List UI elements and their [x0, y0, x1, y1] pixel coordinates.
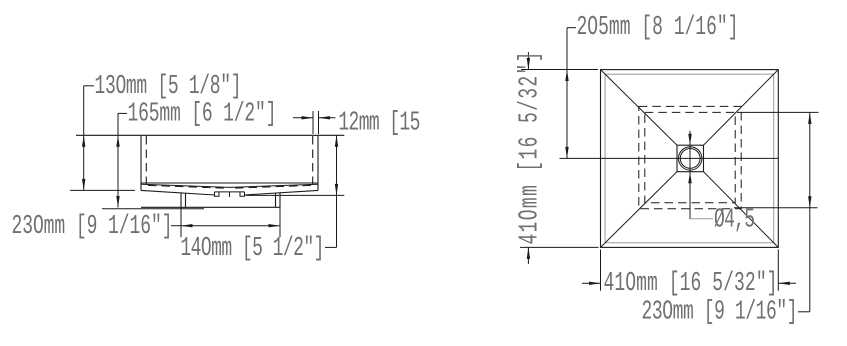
dim 130mm leader tick — [84, 85, 94, 87]
svg-text:14Omm [5 1/2″]: 14Omm [5 1/2″] — [180, 233, 324, 264]
dim 410mm left top arrowhead — [527, 58, 530, 70]
diagonal top-right — [704, 70, 779, 145]
dim 205mm arrow down — [565, 147, 568, 159]
dim 410mm bottom left arrowhead — [589, 282, 601, 285]
dim 410mm left bottom arrowhead — [527, 247, 530, 259]
dim 230mm right arrow up — [808, 112, 811, 124]
dim 205mm arrow up — [565, 70, 568, 82]
dim 165mm arrow up — [116, 135, 119, 147]
dim 230mm right arrow down — [808, 196, 811, 208]
hidden bottom slope left (dashed) — [148, 185, 226, 188]
extension line bottom of wall (130mm dim) — [70, 189, 135, 191]
svg-text:23Omm [9 1/16″]: 23Omm [9 1/16″] — [12, 210, 173, 241]
svg-text:165mm [6 1/2″]: 165mm [6 1/2″] — [128, 98, 277, 129]
dim 410mm bottom: left arrow segment — [582, 282, 601, 284]
dim 230mm right leader tick — [798, 311, 810, 313]
tray top rim line — [76, 134, 344, 136]
drain square — [677, 145, 704, 172]
horizontal centerline — [560, 157, 779, 159]
diameter leader horizontal (gray) — [690, 218, 713, 220]
dim 230mm arrow right — [269, 224, 281, 227]
outer hidden flange square (dashed) — [639, 106, 741, 208]
drain fitting left tab — [215, 192, 220, 196]
drain fitting right tab — [240, 192, 245, 196]
svg-text:23Omm [9 1/16″]: 23Omm [9 1/16″] — [642, 296, 798, 327]
dim 165mm line — [117, 113, 119, 207]
dim 130mm arrow up — [82, 135, 85, 147]
svg-text:13Omm [5 1/8″]: 13Omm [5 1/8″] — [95, 71, 242, 102]
svg-text:41Omm [16 5/32″]: 41Omm [16 5/32″] — [514, 52, 545, 245]
bottom-left extension line — [520, 246, 599, 248]
inner rim square (gray) — [605, 74, 774, 243]
dim 205mm leader tick — [567, 27, 576, 29]
interior bottom slope left — [141, 184, 230, 187]
outer square — [601, 70, 779, 248]
flange bottom line — [141, 206, 280, 208]
dim 12mm left arrowhead — [302, 116, 314, 119]
left leg inner line — [185, 193, 187, 207]
right leg outer line — [279, 193, 281, 207]
dim 140mm arrow up — [335, 135, 338, 147]
dim 12mm left extension line — [312, 111, 314, 134]
dim 12mm right arrow segment — [319, 117, 336, 119]
underside slope right — [244, 190, 318, 195]
diagonal bottom-right — [704, 172, 779, 247]
drain outer circle — [679, 147, 702, 170]
dim 140mm vertical line — [336, 135, 338, 247]
dim 410mm bottom: left extension line — [600, 250, 602, 291]
interior bottom edge line — [141, 182, 318, 184]
dim 12mm left arrow segment — [293, 117, 313, 119]
svg-text:12mm [15: 12mm [15 — [338, 107, 420, 138]
dim 230mm arrow left — [181, 224, 193, 227]
hidden bottom slope right (dashed) — [233, 185, 311, 188]
dim 130mm arrow down — [82, 179, 85, 191]
drain fitting center tick — [229, 192, 231, 197]
dim 410mm left: top arrow segment — [527, 52, 529, 70]
left leg outer line — [180, 193, 182, 207]
dim 230mm leader tick — [171, 225, 181, 227]
diagonal bottom-left — [601, 172, 677, 247]
extension line flange bottom (165mm dim) — [102, 208, 204, 210]
right inner wall hidden (dashed) — [312, 136, 314, 184]
dim 230mm right vertical line — [809, 112, 811, 311]
drain fitting top line — [215, 191, 245, 193]
extension line drain bottom (140mm dim) — [246, 194, 344, 196]
dim 410mm bottom: right extension line — [777, 250, 779, 291]
dim 410mm left: bottom arrow segment — [527, 247, 529, 264]
drain dim arrow up (bottom) — [688, 172, 691, 184]
dim 140mm leader tick — [325, 246, 337, 248]
top extension line left view top — [521, 69, 598, 71]
svg-text:41Omm [16 5/32″]: 41Omm [16 5/32″] — [604, 268, 778, 299]
drain dim arrow down (top) — [688, 134, 691, 146]
right top extension line — [737, 111, 819, 113]
drain inner circle — [680, 149, 700, 169]
vertical drain dim line — [689, 131, 691, 219]
underside slope left — [141, 190, 215, 195]
left inner wall hidden (dashed) — [145, 136, 147, 184]
dim 12mm right arrowhead — [319, 116, 331, 119]
dim 230mm right extension line — [279, 207, 281, 237]
dim 205mm line — [566, 28, 568, 159]
interior bottom slope right — [230, 184, 319, 187]
svg-text:Ø4,5: Ø4,5 — [714, 204, 755, 235]
dim 130mm line — [83, 86, 85, 191]
dim 410mm bottom right arrowhead — [778, 282, 790, 285]
right bottom extension line — [734, 207, 818, 209]
dim 165mm leader tick — [118, 112, 127, 114]
svg-text:2O5mm [8 1/16″]: 2O5mm [8 1/16″] — [577, 12, 739, 43]
dim 140mm arrow down — [335, 184, 338, 196]
left outer wall — [140, 135, 142, 190]
dim 230mm left extension line — [180, 207, 182, 237]
dim 230mm dimension line — [181, 225, 280, 227]
dim 165mm arrow down — [116, 196, 119, 208]
inner hidden flange square (dashed) — [645, 112, 735, 202]
dim 12mm right extension line — [318, 111, 320, 134]
right outer wall — [317, 135, 319, 190]
right leg inner line — [275, 193, 277, 207]
dim 410mm bottom: right arrow segment — [778, 282, 796, 284]
diagonal top-left — [601, 70, 677, 145]
